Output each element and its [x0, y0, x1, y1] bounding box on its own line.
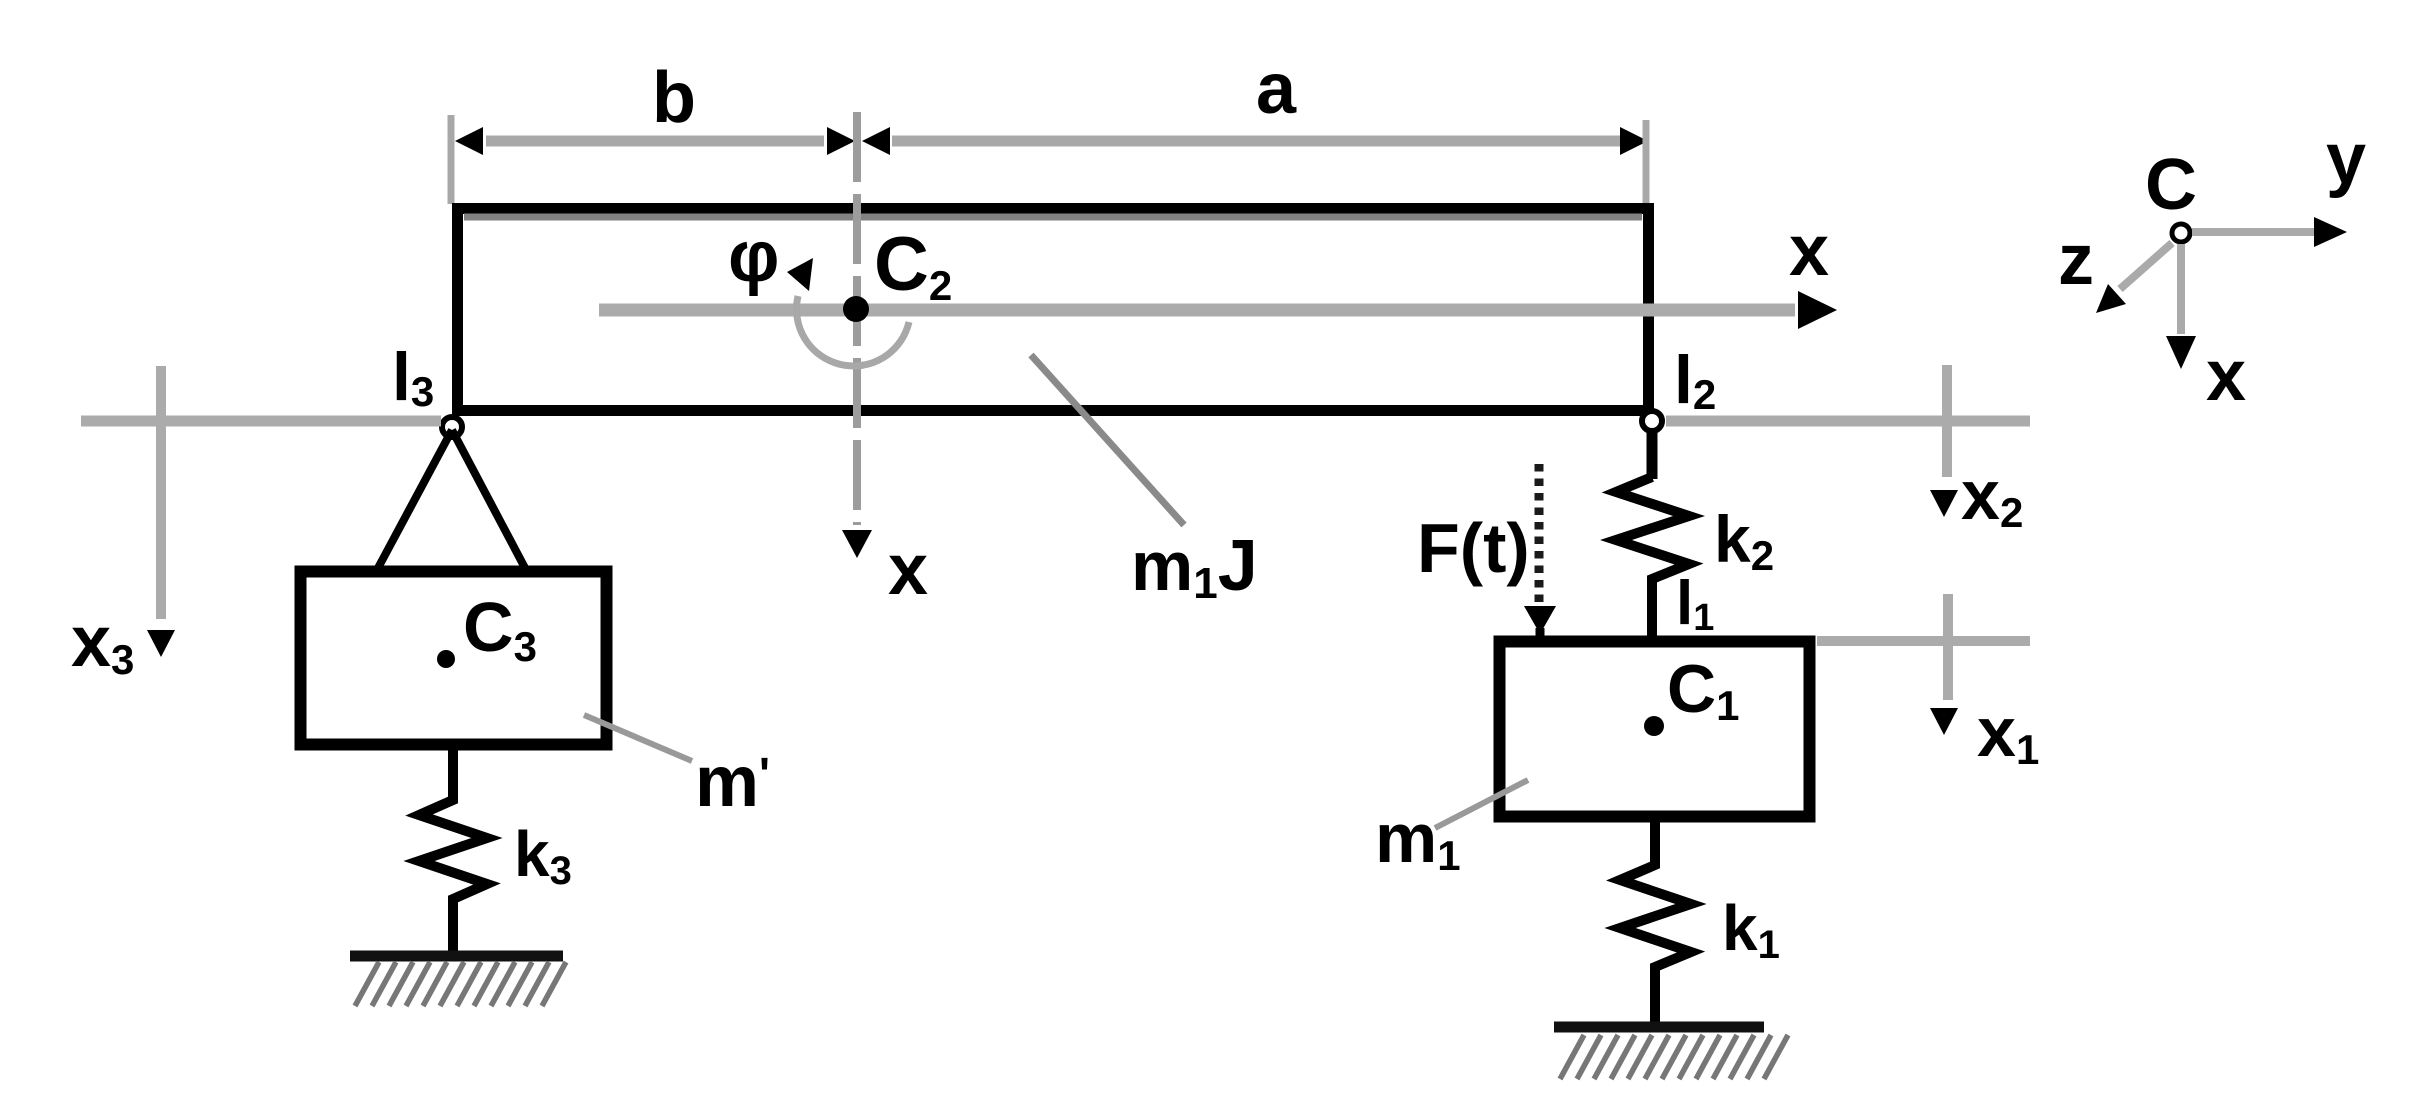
- z axis arrowhead: [2096, 284, 2126, 313]
- svg-text:F(t): F(t): [1417, 509, 1530, 587]
- dimension a shaft: [892, 136, 1620, 147]
- mass m' body: [301, 572, 607, 745]
- level line right lower: [1817, 636, 2030, 646]
- pivot circle l3: [442, 417, 462, 437]
- beam horizontal centerline (x axis): [599, 304, 1795, 317]
- mass m1 body: [1500, 642, 1810, 817]
- x axis down arrowhead below beam: [842, 530, 872, 558]
- z axis line: [2120, 243, 2172, 289]
- centroid C2 dot: [843, 296, 869, 322]
- level line right upper: [1666, 416, 2030, 427]
- svg-text:m1J: m1J: [1131, 526, 1258, 608]
- svg-text:m1: m1: [1375, 799, 1461, 879]
- phi arc arrowhead: [787, 258, 813, 291]
- x axis right arrowhead: [1798, 291, 1837, 329]
- triangle link left leg: [378, 430, 452, 568]
- dimension b arrow left: [455, 127, 483, 155]
- dimension b arrow right: [827, 127, 855, 155]
- ground hatch right: [1560, 1035, 1788, 1079]
- x1 reference line: [1943, 594, 1953, 700]
- C3 dot: [437, 650, 455, 668]
- phi rotation arc: [797, 296, 909, 366]
- svg-text:x: x: [2206, 336, 2246, 416]
- svg-text:x: x: [1789, 211, 1829, 291]
- dimension a arrow right: [1620, 127, 1648, 155]
- svg-text:k3: k3: [514, 818, 572, 893]
- svg-text:l1: l1: [1676, 569, 1714, 639]
- y axis arrowhead: [2314, 217, 2347, 247]
- level line left: [81, 416, 441, 427]
- svg-text:x1: x1: [1977, 693, 2039, 773]
- leader line m1J: [1031, 355, 1184, 525]
- dimension a arrow left: [862, 127, 890, 155]
- x1 arrowhead: [1930, 708, 1958, 735]
- spring k2 connector top: [1647, 430, 1658, 479]
- svg-text:x2: x2: [1961, 456, 2023, 536]
- pivot circle l2: [1642, 411, 1662, 431]
- svg-text:l3: l3: [392, 339, 434, 415]
- x axis line of frame: [2177, 244, 2185, 334]
- leader line m': [584, 715, 692, 761]
- svg-text:φ: φ: [728, 217, 780, 297]
- svg-text:k2: k2: [1714, 502, 1774, 579]
- dimension a extension line right: [1643, 120, 1650, 203]
- triangle link right leg: [452, 430, 525, 568]
- ground line left: [350, 951, 563, 962]
- x axis arrowhead of frame: [2166, 336, 2196, 369]
- ground line right: [1554, 1022, 1764, 1033]
- C1 dot: [1644, 716, 1664, 736]
- spring k3: [419, 745, 487, 951]
- svg-text:b: b: [652, 58, 696, 138]
- force F(t) arrowhead: [1524, 606, 1556, 634]
- svg-text:l2: l2: [1674, 342, 1716, 418]
- x2 reference line: [1942, 365, 1952, 477]
- x3 arrowhead: [147, 630, 175, 657]
- y axis line: [2192, 228, 2318, 236]
- coordinate frame origin circle: [2172, 224, 2190, 242]
- svg-text:m': m': [695, 742, 770, 822]
- ground hatch left: [355, 962, 566, 1006]
- svg-text:k1: k1: [1722, 892, 1780, 967]
- beam vertical centroid axis (dashed): [853, 112, 861, 525]
- beam inner top shading: [464, 214, 1642, 221]
- spring k1: [1620, 822, 1691, 1022]
- svg-text:x3: x3: [71, 602, 134, 683]
- dimension b shaft: [486, 136, 824, 147]
- beam m1J body: [458, 209, 1649, 411]
- svg-text:a: a: [1256, 49, 1297, 129]
- svg-text:y: y: [2326, 119, 2366, 199]
- x3 reference line: [156, 366, 166, 619]
- svg-text:z: z: [2058, 220, 2094, 300]
- leader line m1: [1435, 780, 1528, 828]
- svg-text:C: C: [2145, 145, 2197, 225]
- x2 arrowhead: [1930, 490, 1958, 517]
- force F(t) dashed line: [1535, 464, 1544, 602]
- svg-text:x: x: [888, 530, 928, 610]
- spring k2: [1616, 477, 1689, 637]
- dimension b extension line left: [448, 115, 455, 204]
